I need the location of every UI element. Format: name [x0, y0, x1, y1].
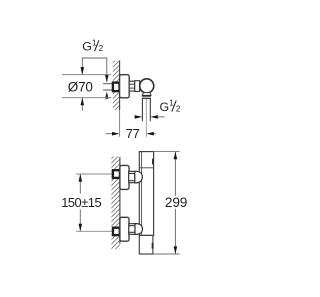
leader tail left of outlet pipe: [134, 116, 136, 118]
svg-text:2: 2: [99, 44, 104, 53]
upper union dome: [135, 171, 143, 183]
upper wall union nut (side view): [113, 170, 120, 178]
lower union nut facet upper: [129, 225, 135, 227]
150±15 dimension line lower part: [79, 209, 81, 231]
lower union dome: [135, 224, 142, 235]
svg-text:1: 1: [169, 99, 173, 108]
mixer body (side view): [139, 152, 153, 236]
fraction slash of top G1/2: [95, 40, 99, 51]
wall face line (top view): [119, 61, 121, 111]
upper supply centre line: [76, 173, 113, 175]
escutcheon (top view): [120, 75, 130, 98]
arrow down onto bottom extension: [174, 246, 178, 254]
arrow down onto lower supply line: [79, 224, 83, 232]
lower union nut at body: [129, 224, 135, 235]
hex nut facet line lower: [129, 87, 135, 89]
wall face line (side view): [119, 157, 121, 244]
outlet collar band lower: [142, 97, 151, 99]
299 extension line top: [154, 151, 180, 153]
svg-text:G: G: [160, 100, 170, 114]
body front feature line: [141, 152, 143, 236]
body edge shading dash: [152, 159, 154, 165]
label G1/2 top inlet thread: [82, 38, 103, 53]
outlet housing shading dash: [152, 243, 154, 249]
upper union nut facet lower: [129, 180, 135, 182]
299 extension line bottom: [153, 253, 180, 255]
lower supply centre line: [76, 230, 113, 232]
150±15 dimension line upper part: [79, 174, 81, 194]
upper union nut at body: [129, 171, 135, 182]
arrow up onto wall nut bottom: [105, 92, 109, 99]
label G1/2 outlet thread: [160, 99, 181, 114]
tail below wall nut arrow: [106, 97, 108, 100]
shower outlet pipe right edge: [149, 99, 151, 121]
arrow down onto escutcheon top extension: [81, 67, 85, 75]
svg-text:2: 2: [176, 104, 181, 113]
supply nipple behind wall (top view): [103, 84, 113, 90]
svg-text:299: 299: [165, 195, 187, 210]
arrow down onto wall nut top: [105, 75, 109, 83]
arrow up onto top extension: [174, 152, 178, 160]
control knob circle (top view): [140, 79, 154, 93]
svg-text:Ø70: Ø70: [68, 80, 93, 95]
lower union nut facet lower: [129, 231, 135, 233]
bottom outlet housing: [139, 235, 153, 254]
299 dimension line lower part: [174, 209, 176, 254]
outlet neck below knob: [142, 93, 151, 96]
wall union nut (top view): [113, 83, 120, 92]
extension line, escutcheon top (Ø70): [62, 74, 111, 76]
fraction slash of outlet G1/2: [172, 101, 176, 112]
77 dimension tail left: [106, 133, 113, 135]
body cap joint line: [139, 167, 153, 169]
arrow left onto pipe centre extension: [146, 132, 154, 136]
valve body cylinder (top view): [135, 81, 140, 92]
leader bracket for top G1/2 dimension: [82, 58, 107, 82]
arrow right onto wall face extension: [112, 132, 120, 136]
shower outlet pipe left edge: [141, 99, 143, 121]
Ø70 dimension tail below: [81, 98, 83, 111]
77 dimension tail right: [153, 133, 155, 135]
arrow right onto pipe left edge: [135, 115, 143, 119]
hex nut facet line upper: [129, 83, 135, 85]
lower wall union nut (side view): [113, 228, 120, 235]
wall section (side view) hatching: [111, 156, 120, 249]
upper union nut facet upper: [129, 173, 135, 175]
extension line, escutcheon bottom (Ø70): [62, 97, 111, 99]
wall face extension line for 77: [119, 110, 121, 137]
svg-text:1: 1: [92, 38, 96, 47]
pipe centre line / 77 extension: [145, 99, 147, 137]
svg-text:77: 77: [126, 126, 140, 141]
299 dimension line upper part: [174, 152, 176, 196]
arrow left onto pipe right edge: [150, 115, 158, 119]
outlet collar band upper: [142, 95, 151, 97]
arrow up onto escutcheon bottom extension: [81, 98, 85, 106]
svg-text:G: G: [82, 40, 92, 54]
wall section (top view) hatching: [113, 61, 120, 110]
leader tail right of outlet pipe: [157, 116, 165, 118]
lower escutcheon (side view): [120, 217, 129, 241]
svg-text:150±15: 150±15: [61, 195, 101, 210]
union hex nut (top view): [129, 81, 135, 91]
upper escutcheon (side view): [120, 165, 129, 189]
arrow up onto upper supply line: [79, 174, 83, 182]
